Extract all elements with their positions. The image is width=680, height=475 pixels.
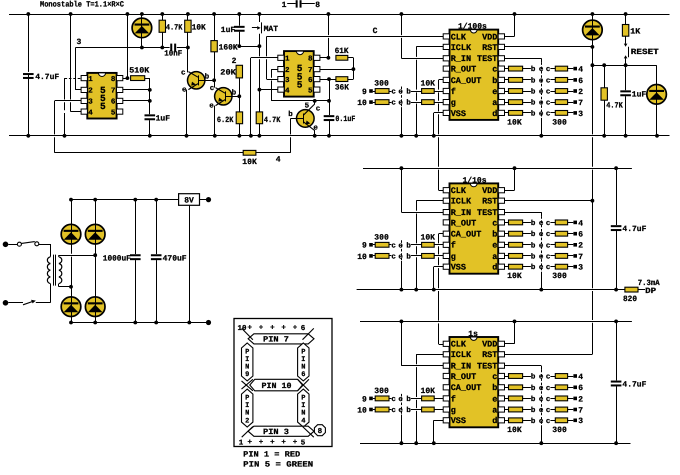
1/10s TEST wire to emitter column (dashed)	[505, 212, 542, 290]
svg-text:10nF: 10nF	[164, 50, 182, 59]
svg-text:a: a	[492, 98, 497, 108]
resistor R11 820 to decimal point	[623, 279, 660, 304]
svg-text:4.7K: 4.7K	[606, 102, 623, 111]
1s segment ladder row c to display pin 4	[505, 373, 584, 382]
display bottom pin row 1..5	[239, 439, 306, 447]
1/10s segment ladder row e to display pin 2	[505, 241, 584, 250]
svg-text:c: c	[546, 231, 551, 239]
svg-text:VDD: VDD	[482, 32, 497, 42]
svg-text:g: g	[451, 405, 456, 415]
svg-text:10K: 10K	[421, 233, 436, 242]
svg-text:36K: 36K	[335, 83, 349, 92]
wire U2 pin7	[320, 69, 354, 71]
svg-text:R_IN: R_IN	[451, 208, 471, 218]
1s ladder labels left	[374, 387, 435, 396]
resistor R4 160K	[211, 14, 238, 80]
resistor R1 4.7K	[159, 14, 182, 48]
1s segment ladder row b to display pin 6	[505, 384, 584, 393]
wire Q3 base from 10K	[290, 118, 292, 134]
capacitor C3 1uF	[144, 114, 171, 123]
svg-text:b: b	[531, 241, 536, 250]
svg-text:c: c	[546, 264, 551, 272]
svg-text:300: 300	[552, 426, 567, 435]
wire U1 pin3 to 10K	[55, 101, 82, 153]
1/10s ladder labels right	[507, 272, 567, 281]
1/100s ladder labels left	[374, 80, 435, 89]
capacitor C8 1uF reset	[619, 65, 646, 136]
svg-text:c: c	[546, 385, 551, 393]
svg-text:4: 4	[285, 87, 290, 95]
svg-text:4.7K: 4.7K	[166, 24, 183, 33]
counter IC 1s	[450, 330, 499, 427]
1s segment ladder row a to display pin 7	[505, 406, 584, 415]
svg-text:5: 5	[301, 440, 306, 448]
svg-text:+: +	[248, 325, 253, 333]
svg-text:c: c	[210, 85, 215, 93]
svg-text:b: b	[406, 406, 411, 415]
svg-text:8: 8	[111, 75, 116, 84]
svg-text:+: +	[248, 439, 253, 447]
svg-text:6: 6	[308, 76, 313, 85]
svg-text:ICLK: ICLK	[451, 43, 472, 53]
1/100s VSS wire to ground	[434, 113, 444, 136]
svg-text:a: a	[492, 405, 497, 415]
display pinout box	[234, 319, 332, 447]
svg-text:+: +	[293, 325, 298, 333]
svg-text:c: c	[391, 407, 396, 415]
svg-text:c: c	[546, 242, 551, 250]
svg-text:e: e	[209, 102, 214, 110]
capacitor C9 1000uF	[103, 200, 142, 323]
svg-text:300: 300	[374, 233, 389, 242]
svg-text:4: 4	[88, 109, 93, 117]
terminal AC input bottom	[3, 300, 9, 306]
svg-text:b: b	[531, 395, 536, 404]
transistor Q3 output driver	[288, 101, 321, 136]
svg-text:6: 6	[578, 384, 583, 393]
display segment E PIN 2	[242, 389, 253, 427]
capacitor C1 4.7uF	[22, 14, 59, 136]
svg-text:C: C	[373, 27, 378, 36]
svg-text:b: b	[406, 252, 411, 261]
wire ground rail 2	[357, 289, 625, 291]
svg-text:b: b	[531, 65, 536, 74]
svg-text:c: c	[391, 100, 396, 108]
svg-text:PIN 5 = GREEN: PIN 5 = GREEN	[243, 461, 313, 470]
svg-text:b: b	[205, 72, 210, 81]
svg-text:CLK: CLK	[451, 186, 467, 196]
svg-text:MAT: MAT	[264, 25, 279, 34]
svg-text:7: 7	[578, 253, 583, 262]
svg-text:f: f	[451, 394, 456, 404]
svg-text:e: e	[492, 394, 497, 404]
LED D3 reset indicator	[647, 65, 667, 136]
1s RST wire	[505, 354, 593, 356]
svg-text:a: a	[492, 252, 497, 262]
1/10s input ladder row f terminal 9	[362, 241, 443, 250]
display legend	[243, 451, 313, 470]
U1 pin boxes right	[111, 75, 123, 118]
1s segment ladder row d to display pin 3	[505, 417, 584, 426]
resistor R3 510K	[129, 67, 150, 81]
resistor R6 6.2K	[236, 112, 242, 136]
svg-text:R_IN: R_IN	[451, 362, 471, 372]
wire PSU ground rail	[71, 322, 206, 324]
svg-text:e: e	[398, 396, 403, 404]
1/100s pin boxes left	[443, 34, 449, 116]
wire 510K/pin7/pin6 column	[149, 78, 151, 136]
svg-text:TEST: TEST	[477, 362, 497, 372]
svg-text:820: 820	[623, 295, 637, 304]
note capacitor between pin 1 and 8	[282, 0, 321, 10]
svg-text:c: c	[546, 100, 551, 108]
svg-text:4: 4	[578, 219, 583, 228]
1s R_IN wire	[401, 322, 443, 366]
1/10s pin boxes right	[498, 188, 504, 270]
resistor R2 10K	[185, 14, 206, 48]
1/10s segment ladder row d to display pin 3	[505, 263, 584, 272]
svg-text:PIN 10: PIN 10	[262, 382, 292, 391]
svg-text:10K: 10K	[421, 80, 436, 89]
svg-text:470uF: 470uF	[163, 254, 187, 263]
svg-text:c: c	[391, 253, 396, 261]
1/10s VDD wire	[505, 168, 515, 190]
svg-text:2: 2	[578, 88, 583, 97]
svg-text:b: b	[531, 109, 536, 118]
svg-text:+: +	[281, 325, 286, 333]
wire U1 pin2	[76, 89, 82, 91]
wire U1 pin8 to VCC	[123, 14, 128, 79]
svg-text:1uF: 1uF	[156, 115, 171, 124]
svg-text:TEST: TEST	[477, 208, 497, 218]
svg-text:b: b	[531, 219, 536, 228]
junction dot R_IN top rail	[400, 12, 404, 16]
1s VSS wire to ground	[434, 420, 444, 443]
svg-text:RST: RST	[482, 350, 497, 360]
svg-text:c: c	[546, 89, 551, 97]
terminal PSU + output	[206, 197, 211, 202]
reset chain column	[592, 47, 594, 134]
svg-text:b: b	[406, 241, 411, 250]
svg-text:8V: 8V	[184, 197, 194, 206]
svg-text:6: 6	[301, 324, 306, 333]
svg-text:8: 8	[315, 1, 320, 10]
svg-text:e: e	[398, 100, 403, 108]
svg-text:6.2K: 6.2K	[217, 116, 234, 125]
svg-text:7: 7	[578, 99, 583, 108]
display corner lead lines	[242, 328, 314, 437]
svg-text:R_OUT: R_OUT	[451, 218, 477, 228]
svg-text:e: e	[398, 253, 403, 261]
1s VDD wire	[505, 322, 515, 344]
wire U2 pin8 to VCC	[320, 14, 329, 58]
svg-text:+: +	[293, 439, 298, 447]
1/100s segment ladder row e to display pin 2	[505, 88, 584, 97]
1/100s R_IN wire	[401, 14, 443, 59]
svg-text:9: 9	[362, 395, 367, 404]
svg-text:CA_OUT: CA_OUT	[451, 383, 482, 393]
svg-text:b: b	[492, 230, 497, 240]
1s ICLK wire to ground	[416, 354, 443, 443]
svg-text:c: c	[546, 407, 551, 415]
U1 pin boxes left	[81, 76, 93, 118]
display decimal point pin 8	[314, 425, 325, 437]
svg-text:2: 2	[232, 57, 237, 66]
wire U2 pin3 output C	[267, 27, 444, 80]
svg-text:b: b	[531, 88, 536, 97]
svg-text:1: 1	[285, 56, 290, 64]
svg-text:510K: 510K	[129, 67, 149, 76]
svg-text:VDD: VDD	[482, 186, 497, 196]
svg-text:3: 3	[578, 417, 583, 426]
svg-text:c: c	[316, 106, 321, 114]
svg-text:2: 2	[578, 395, 583, 404]
svg-text:4: 4	[276, 156, 281, 165]
display segment C PIN 4	[298, 389, 309, 427]
resistor R13 4.7K reset	[601, 65, 623, 136]
svg-text:+: +	[259, 325, 264, 333]
svg-text:3: 3	[285, 76, 290, 85]
svg-text:R_OUT: R_OUT	[451, 372, 477, 382]
svg-text:c: c	[492, 65, 497, 75]
svg-text:c: c	[546, 374, 551, 382]
svg-text:c: c	[181, 70, 186, 78]
junction dots ground rail mid	[400, 134, 404, 138]
svg-text:1uF: 1uF	[221, 26, 236, 35]
wire U2 pin1 to ground	[251, 58, 278, 136]
svg-text:5: 5	[308, 87, 313, 95]
junction dots ground rail left	[26, 134, 30, 138]
svg-text:10: 10	[357, 99, 367, 108]
svg-text:b: b	[406, 99, 411, 108]
wire U2 pin2	[271, 69, 329, 101]
svg-text:3: 3	[77, 38, 82, 47]
svg-text:b: b	[531, 373, 536, 382]
svg-text:e: e	[492, 87, 497, 97]
svg-text:d: d	[492, 416, 497, 426]
1/100s VDD wire	[505, 14, 515, 37]
1s pin boxes right	[498, 341, 504, 423]
svg-text:Monostable T=1.1×R×C: Monostable T=1.1×R×C	[40, 1, 124, 10]
svg-text:e: e	[182, 86, 187, 94]
svg-text:10K: 10K	[507, 272, 522, 281]
1/10s ICLK wire to ground	[416, 201, 443, 290]
svg-text:7: 7	[578, 406, 583, 415]
switch RESET	[624, 36, 659, 65]
switch MAT (start contact)	[252, 14, 278, 46]
wire U1 pin7	[123, 89, 150, 91]
svg-text:c: c	[391, 396, 396, 404]
op-amp U1 555 timer (monostable)	[87, 73, 116, 119]
capacitor C6 4.7uF block2	[610, 168, 647, 289]
1s input ladder row f terminal 9	[362, 395, 443, 404]
svg-text:3: 3	[88, 98, 93, 107]
1s segment ladder row e to display pin 2	[505, 395, 584, 404]
svg-text:3: 3	[578, 110, 583, 119]
svg-text:b: b	[531, 384, 536, 393]
LED bridge D7 (bottom right)	[85, 297, 105, 323]
svg-text:d: d	[492, 263, 497, 273]
svg-text:c: c	[546, 77, 551, 85]
svg-text:PIN 7: PIN 7	[263, 336, 289, 345]
svg-text:2: 2	[578, 242, 583, 251]
1s input ladder row g terminal 10	[357, 406, 443, 415]
wire U1 pin4 to VCC	[71, 14, 82, 112]
U2 pin boxes left	[278, 55, 290, 95]
display segment F PIN 9	[242, 343, 253, 381]
svg-text:10K: 10K	[192, 24, 206, 33]
wire pin6 node to pin2 node	[329, 79, 331, 101]
reset bus wire	[592, 65, 656, 67]
svg-text:VSS: VSS	[451, 109, 466, 119]
svg-text:4.7uF: 4.7uF	[622, 225, 646, 234]
svg-text:g: g	[451, 98, 456, 108]
svg-text:c: c	[546, 253, 551, 261]
1/100s ICLK wire to ground	[416, 47, 443, 136]
svg-text:b: b	[288, 110, 293, 119]
regulator 8V	[179, 194, 206, 323]
1/10s segment ladder row a to display pin 7	[505, 252, 584, 261]
LED bridge D5 (top right)	[85, 200, 105, 298]
svg-text:10K: 10K	[507, 426, 522, 435]
capacitor C7 4.7uF block3	[610, 321, 647, 443]
1/100s segment ladder row c to display pin 4	[505, 65, 584, 74]
1/10s VSS wire to ground	[434, 267, 444, 290]
svg-text:f: f	[451, 241, 456, 251]
svg-text:f: f	[451, 87, 456, 97]
svg-text:ICLK: ICLK	[451, 350, 472, 360]
svg-text:3: 3	[578, 264, 583, 273]
svg-text:e: e	[398, 89, 403, 97]
svg-text:c: c	[492, 218, 497, 228]
svg-text:c: c	[391, 89, 396, 97]
1/100s left emitter column (dashed)	[401, 87, 403, 136]
svg-text:5: 5	[111, 109, 116, 117]
svg-text:9: 9	[362, 88, 367, 97]
svg-text:9: 9	[245, 371, 249, 379]
1/100s pin boxes right	[498, 34, 504, 116]
svg-text:c: c	[546, 66, 551, 74]
LED bridge D6 (bottom left)	[61, 297, 81, 323]
1/10s segment ladder row c to display pin 4	[505, 219, 584, 228]
svg-text:1: 1	[239, 440, 244, 448]
svg-text:b: b	[406, 395, 411, 404]
svg-text:10K: 10K	[421, 387, 436, 396]
wire 10K to Q1 collector	[187, 48, 189, 72]
1/100s input ladder row g terminal 10	[357, 99, 443, 108]
svg-text:2: 2	[245, 417, 249, 425]
1/100s ladder labels right	[507, 118, 567, 127]
1/10s ladder labels left	[374, 233, 435, 242]
1/100s CA_OUT to next stage CLK	[439, 80, 444, 191]
svg-text:CLK: CLK	[451, 32, 467, 42]
svg-text:c: c	[546, 110, 551, 118]
wire U1 pin6	[123, 100, 150, 102]
wire VCC top rail	[9, 14, 670, 16]
display top pin row 10..6	[238, 324, 306, 333]
svg-text:c: c	[546, 418, 551, 426]
1/10s RST wire	[505, 200, 593, 202]
svg-text:PIN 3: PIN 3	[263, 428, 289, 437]
svg-text:10: 10	[357, 253, 367, 262]
svg-text:b: b	[531, 417, 536, 426]
svg-text:+: +	[281, 439, 286, 447]
wire MAT column to pin4 node and 4.7K	[259, 46, 261, 56]
svg-text:8: 8	[308, 55, 313, 64]
svg-text:VSS: VSS	[451, 416, 466, 426]
svg-text:0.1uF: 0.1uF	[335, 115, 355, 124]
svg-text:g: g	[451, 252, 456, 262]
svg-text:R_IN: R_IN	[451, 54, 471, 64]
VDD bus wire block 3	[360, 321, 632, 323]
terminal PSU - output	[206, 320, 211, 325]
svg-text:1: 1	[88, 76, 93, 84]
svg-text:300: 300	[552, 272, 567, 281]
svg-text:CLK: CLK	[451, 340, 467, 350]
1/100s input ladder row f terminal 9	[362, 88, 443, 97]
svg-text:ICLK: ICLK	[451, 197, 472, 207]
svg-text:8: 8	[318, 427, 323, 436]
svg-text:b: b	[531, 263, 536, 272]
LED bridge D4 (top left)	[61, 200, 81, 298]
svg-text:4: 4	[301, 417, 305, 425]
svg-text:DP: DP	[645, 287, 656, 296]
svg-text:b: b	[406, 88, 411, 97]
resistor R12 1K	[622, 14, 640, 37]
svg-text:1uF: 1uF	[632, 90, 647, 99]
svg-text:10K: 10K	[242, 158, 257, 167]
svg-text:2: 2	[285, 66, 290, 75]
svg-text:b: b	[492, 383, 497, 393]
node 3 wire (555 U1 pin2 - LED - 4.7K - 10nF)	[76, 38, 170, 90]
svg-text:1000uF: 1000uF	[103, 254, 131, 263]
svg-text:b: b	[531, 252, 536, 261]
svg-text:b: b	[531, 76, 536, 85]
svg-text:4.7uF: 4.7uF	[622, 381, 646, 390]
capacitor C5 0.1uF	[323, 101, 356, 136]
1/100s RST wire	[505, 46, 593, 48]
transistor Q2	[209, 80, 239, 136]
op-amp U2 555 timer (astable clock)	[284, 51, 314, 97]
svg-text:10K: 10K	[507, 118, 522, 127]
svg-text:RESET: RESET	[631, 48, 659, 57]
wire secondary top to bridge right	[59, 255, 95, 257]
svg-text:160K: 160K	[219, 44, 238, 53]
svg-text:b: b	[531, 230, 536, 239]
svg-text:c: c	[391, 242, 396, 250]
1s TEST wire to emitter column (dashed)	[505, 366, 542, 444]
capacitor C10 470uF	[150, 200, 187, 323]
wire secondary bottom to bridge left	[59, 286, 71, 288]
display segment G PIN 10	[250, 379, 303, 391]
svg-text:300: 300	[552, 118, 567, 127]
svg-text:5: 5	[100, 101, 106, 112]
transistor Q1	[181, 70, 214, 136]
svg-text:4: 4	[578, 373, 583, 382]
switch S1b	[8, 300, 50, 305]
svg-text:6: 6	[301, 371, 305, 379]
svg-text:4.7uF: 4.7uF	[35, 73, 59, 82]
svg-text:300: 300	[374, 387, 389, 396]
resistor R7 4.7K	[256, 112, 280, 136]
svg-text:e: e	[398, 407, 403, 415]
counter IC 1/100s	[450, 23, 499, 120]
svg-text:d: d	[492, 109, 497, 119]
svg-text:1K: 1K	[630, 28, 640, 37]
1/100s segment ladder row d to display pin 3	[505, 109, 584, 118]
junction dots top rail left	[26, 12, 30, 16]
svg-text:b: b	[531, 406, 536, 415]
